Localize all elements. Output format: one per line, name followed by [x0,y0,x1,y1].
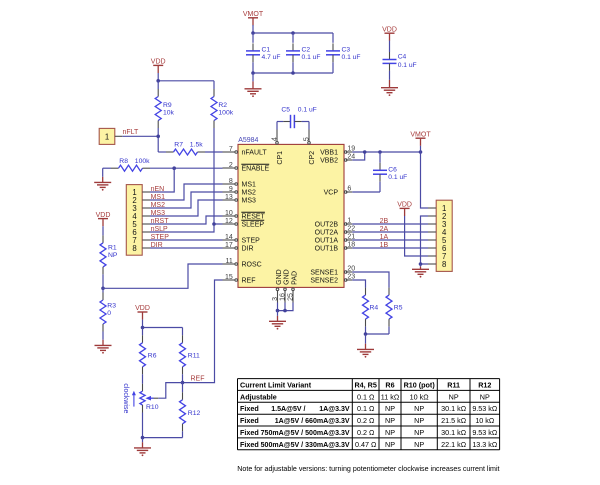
net label MS1 [151,194,166,201]
wire to ground (sense) [365,334,367,349]
svg-text:3: 3 [272,297,279,301]
wire VBB1 rail [352,151,420,153]
svg-text:C6: C6 [388,167,397,174]
net label REF [191,376,205,383]
svg-text:30.1 kΩ: 30.1 kΩ [441,428,467,437]
svg-text:21.5 kΩ: 21.5 kΩ [441,416,467,425]
node junction GND pin 3 [276,309,280,313]
resistor R7 1.5k [158,141,205,155]
svg-text:2A: 2A [380,226,389,233]
pin 19 (right, y=152) [344,146,355,154]
pin name ENABLE (overline) [241,164,269,172]
wire ROSC net [103,264,223,288]
svg-text:R5: R5 [394,305,403,312]
svg-text:R4: R4 [370,305,379,312]
svg-text:VDD: VDD [151,59,166,66]
svg-text:MS1: MS1 [242,182,257,189]
svg-text:15: 15 [225,274,233,281]
svg-text:4: 4 [269,137,278,141]
capacitor C3 0.1 uF [326,33,360,73]
svg-text:DIR: DIR [242,246,254,253]
svg-text:NP: NP [108,252,118,259]
ground (C4) [381,88,398,96]
svg-text:NP: NP [385,440,395,449]
svg-text:1.5k: 1.5k [190,141,203,148]
power symbol VDD (above R6) [135,305,150,319]
svg-text:REF: REF [191,376,205,383]
svg-text:8: 8 [229,178,233,185]
pin 12 (left, y=224) [223,218,238,226]
capacitor C6 0.1 uF [373,152,407,192]
svg-text:CP2: CP2 [309,151,316,165]
svg-text:500mA@5V / 330mA@3.3V: 500mA@5V / 330mA@3.3V [261,442,350,449]
wire MS1 net [150,184,223,200]
svg-text:Note for adjustable versions:: Note for adjustable versions: turning po… [237,465,499,473]
pin 8 (left, y=184) [223,178,238,186]
pin name MS1 [242,182,257,189]
svg-text:10: 10 [225,210,233,217]
svg-text:750mA@5V / 500mA@3.3V: 750mA@5V / 500mA@3.3V [261,430,350,437]
wire OUT net 1B [352,247,428,249]
net label 1A [380,234,389,241]
wire C4 to ground [389,80,391,88]
ground (R8) [94,182,111,190]
node junction VDD/R9 [156,79,160,83]
node junction VBB2/VBB1 [363,150,367,154]
svg-text:NP: NP [385,416,395,425]
node junction VMOT rail [419,150,423,154]
pin name DIR [242,246,254,253]
resistor R4 [363,288,379,334]
svg-text:10k: 10k [163,109,175,116]
pin name CP1 (rotated) [277,151,284,165]
wire nSLP net [150,224,223,232]
pin 11 (left, y=264) [223,258,238,266]
svg-text:C1: C1 [262,47,271,54]
svg-text:8: 8 [442,260,446,269]
resistor R12 [180,383,201,438]
connector J1 8-pin header [126,185,150,256]
pin 16 (bottom GND) [279,288,286,303]
wire VMOT to cap bank top rail [253,25,333,33]
connector J2 8-pin header (right) [428,200,452,271]
svg-text:Fixed: Fixed [240,416,259,425]
svg-text:7: 7 [229,146,233,153]
svg-text:0.1 uF: 0.1 uF [302,54,321,61]
net label MS3 [151,210,166,217]
resistor R2 100k [211,81,234,128]
node junction R1/R3/ROSC [101,287,105,291]
pin name ROSC [242,262,262,269]
wire SENSE2 net [352,280,365,288]
svg-text:13: 13 [225,194,233,201]
svg-text:22.1 kΩ: 22.1 kΩ [441,440,467,449]
svg-text:VCP: VCP [324,190,339,197]
pin 3 (bottom GND) [272,288,279,303]
svg-text:R11: R11 [447,381,460,390]
pin 2 (left, y=168) [223,162,238,170]
svg-text:REF: REF [242,278,256,285]
svg-text:CP1: CP1 [277,151,284,165]
svg-text:0.1 Ω: 0.1 Ω [357,392,375,401]
pin 25 (bottom PAD) [287,288,294,303]
svg-text:9.53 kΩ: 9.53 kΩ [472,428,498,437]
svg-text:R2: R2 [218,102,227,109]
wire VDD rail to R2 [158,73,214,81]
resistor R3 0 [100,288,116,340]
potentiometer R10 [140,384,159,413]
svg-text:1.5A@5V / 1A@3.3V: 1.5A@5V / 1A@3.3V [271,406,350,413]
wire OUT net 2A [352,231,428,233]
svg-text:8: 8 [132,244,136,253]
ground (IC) [269,321,286,329]
svg-text:VDD: VDD [135,305,150,312]
svg-text:clockwise: clockwise [122,383,129,413]
wire cap bank bottom rail [253,72,333,74]
node junction R10/R12 bottom [141,436,145,440]
power symbol VDD (right connector) [397,202,412,216]
svg-text:12: 12 [225,218,233,225]
IC U1 A5984 stepper motor driver [238,137,344,288]
net label nFLT [123,129,140,136]
ground (connector) [412,269,429,277]
capacitor C5 0.1 uF [277,106,317,129]
wire VMOT down to connector pin 1 [421,146,429,208]
svg-text:VDD: VDD [382,26,397,33]
wire R10 wiper to REF node [158,383,182,399]
pin 13 (left, y=200) [223,194,238,202]
wire STEP net [150,239,223,241]
pin name SENSE1 [310,270,338,277]
net label nEN [151,186,165,193]
svg-text:100k: 100k [135,158,150,165]
svg-text:30.1 kΩ: 30.1 kΩ [441,404,467,413]
svg-text:SLEEP: SLEEP [242,222,265,229]
pin 5 (top CP2) [301,130,310,145]
wire C6 to VCP pin [352,191,380,193]
svg-text:10 kΩ: 10 kΩ [475,416,495,425]
pin 9 (left, y=192) [223,186,238,194]
svg-text:NP: NP [480,392,490,401]
svg-text:1: 1 [105,133,109,142]
wire nRST net [150,216,223,224]
svg-text:6: 6 [347,186,351,193]
pin name MS3 [242,198,257,205]
pin 1 (right, y=224) [344,218,352,226]
svg-text:PAD: PAD [292,271,299,285]
wire to ground (IC) [277,311,279,322]
power symbol VDD (above R1) [96,212,111,226]
resistor R5 [386,288,403,334]
pin 23 (right, y=280) [344,274,355,282]
pin name CP2 (rotated) [309,151,316,165]
pin 7 (left, y=152) [223,146,238,154]
pin name OUT2B [315,222,339,229]
svg-text:NP: NP [414,404,424,413]
svg-text:0.47 Ω: 0.47 Ω [355,440,377,449]
node junction R4/R5 [364,332,368,336]
pin name SLEEP (overline) [241,220,264,228]
wire GND riser rows 2-8 [421,216,429,264]
pin 4 (top CP1) [269,130,278,145]
node junction REF [181,381,185,385]
svg-text:4.7 uF: 4.7 uF [262,54,281,61]
pin name GND (rotated, pin 3) [276,269,283,285]
svg-text:C5: C5 [281,106,290,113]
wire R2 down to SLEEP net [213,128,215,224]
svg-text:R12: R12 [478,381,491,390]
svg-text:MS3: MS3 [242,198,257,205]
svg-text:0.1 uF: 0.1 uF [388,174,407,181]
svg-text:nFLT: nFLT [123,129,140,136]
svg-text:0.2 Ω: 0.2 Ω [357,416,375,425]
svg-text:R6: R6 [385,381,394,390]
node junction C2 top [291,31,295,35]
svg-text:GND: GND [284,269,291,285]
svg-text:R6: R6 [148,352,157,359]
svg-text:RESET: RESET [242,214,266,221]
pin 20 (right, y=272) [344,266,355,274]
node junction connector GND [419,262,423,266]
pin 14 (left, y=240) [223,234,238,242]
wire SENSE1 net [352,272,389,288]
pin 6 (right, y=192) [344,186,352,194]
svg-text:R10: R10 [146,404,159,411]
pin 22 (right, y=232) [344,226,355,234]
svg-text:OUT1A: OUT1A [315,238,339,245]
node junction ENABLE/nEN [172,166,176,170]
net label DIR [151,242,163,249]
wire nFLT to R9/R7 [122,136,158,152]
pin name OUT2A [315,230,339,237]
pin name MS2 [242,190,257,197]
svg-text:VDD: VDD [397,202,412,209]
svg-text:5: 5 [301,137,310,141]
svg-text:NP: NP [414,428,424,437]
svg-text:2B: 2B [380,218,389,225]
pin 15 (left, y=280) [223,274,238,282]
pin name REF [242,278,256,285]
resistor R9 10k [155,81,174,137]
wire R7 to nFAULT pin [205,151,223,153]
svg-text:Fixed: Fixed [240,428,259,437]
power symbol VMOT (top) [243,11,264,25]
svg-text:0.1 Ω: 0.1 Ω [357,404,375,413]
svg-text:R11: R11 [188,352,200,359]
resistor R6 [140,328,157,384]
wire R10/R12 bottom rail [143,413,183,438]
node junction nFLT/R9 [156,135,160,139]
svg-text:NP: NP [385,404,395,413]
svg-text:1A: 1A [380,234,389,241]
ground (sense) [357,349,374,357]
svg-text:NP: NP [449,392,459,401]
node junction C2 bottom [291,71,295,75]
svg-text:2: 2 [229,162,233,169]
svg-text:nFAULT: nFAULT [242,150,268,157]
power symbol VDD (top right) [382,26,397,40]
net label 1B [380,242,389,249]
current limit table [238,379,500,450]
node junction VDD/R6 [141,326,145,330]
svg-text:Adjustable: Adjustable [240,392,277,401]
wire OUT net 2B [352,223,428,225]
svg-text:R3: R3 [107,303,116,310]
pin 17 (left, y=248) [223,242,238,250]
svg-text:SENSE2: SENSE2 [310,278,338,285]
pin 24 (right, y=160) [344,154,355,162]
node junction C6 tap [378,150,382,154]
node junction GND pin 16 [283,309,287,313]
svg-text:GND: GND [276,269,283,285]
pin name GND (rotated, pin 16) [284,269,291,285]
power symbol VMOT (right) [410,131,431,145]
net label 2A [380,226,389,233]
svg-text:0.2 Ω: 0.2 Ω [357,428,375,437]
svg-text:ROSC: ROSC [242,262,262,269]
svg-text:R9: R9 [163,102,172,109]
svg-text:MS2: MS2 [242,190,257,197]
svg-text:VBB1: VBB1 [320,150,338,157]
resistor R11 [180,328,200,383]
wire to ground from cap bank [252,73,254,89]
wire REF net (pin 15 riser) [183,280,223,383]
svg-text:100k: 100k [218,109,233,116]
svg-text:0.1 uF: 0.1 uF [398,62,417,69]
wire to ground (connector) [420,264,422,269]
label clockwise with arrow [122,383,136,413]
svg-text:R10 (pot): R10 (pot) [404,381,436,390]
svg-text:11: 11 [226,258,233,265]
svg-text:0.1 uF: 0.1 uF [342,54,361,61]
svg-text:OUT2B: OUT2B [315,222,339,229]
svg-text:1A@5V / 660mA@3.3V: 1A@5V / 660mA@3.3V [275,418,350,425]
resistor R1 NP [100,226,118,288]
pin name VBB1 [320,150,338,157]
wire MS3 net [150,200,223,216]
net label nSLP [151,226,168,233]
svg-text:SENSE1: SENSE1 [310,270,338,277]
svg-text:A5984: A5984 [238,137,258,144]
pin name SENSE2 [310,278,338,285]
svg-text:STEP: STEP [242,238,261,245]
svg-text:R4, R5: R4, R5 [354,381,376,390]
wire R3 to ground [102,340,104,345]
node junction nSLP/R2 [212,222,216,226]
wire to ground (divider) [142,438,144,448]
pin name VBB2 [320,158,338,165]
wire DIR net [150,247,223,249]
note text [237,465,499,473]
capacitor C2 0.1 uF [286,33,320,73]
wire VDD to connector pin 7 [405,216,428,256]
wire VDD to R6/R11 [143,320,183,328]
pin name PAD (rotated, pin 25) [292,271,299,285]
pin name STEP [242,238,261,245]
connector pad nFLT (1-pin) [99,128,122,144]
svg-text:9.53 kΩ: 9.53 kΩ [472,404,498,413]
wire OUT net 1A [352,239,428,241]
svg-text:VMOT: VMOT [410,131,431,138]
svg-text:VDD: VDD [96,212,111,219]
pin 21 (right, y=240) [344,234,355,242]
pin name nFAULT [242,150,268,157]
pin 18 (right, y=248) [344,242,355,250]
wire R4/R5 bottom rail [366,333,390,335]
svg-text:9: 9 [229,186,233,193]
svg-text:0.1 uF: 0.1 uF [298,106,317,113]
svg-text:C2: C2 [302,47,311,54]
svg-text:1B: 1B [380,242,389,249]
net label STEP [151,234,170,241]
svg-text:Fixed: Fixed [240,404,259,413]
svg-text:OUT1B: OUT1B [315,246,339,253]
svg-text:16: 16 [279,293,286,301]
svg-text:11 kΩ: 11 kΩ [381,392,400,401]
svg-text:ENABLE: ENABLE [242,166,270,173]
power symbol VDD (above R9) [151,59,166,73]
ground (cap bank) [245,89,262,97]
svg-text:0: 0 [107,310,111,317]
svg-text:10 kΩ: 10 kΩ [410,392,430,401]
net label nRST [151,218,170,225]
svg-text:R12: R12 [188,410,201,417]
net label MS2 [151,202,166,209]
node junction C1 bottom [251,71,255,75]
ground (R3) [95,345,112,353]
pin name OUT1B [315,246,339,253]
wire nEN net [150,168,174,192]
svg-text:C4: C4 [398,53,407,60]
svg-text:C3: C3 [342,47,351,54]
svg-text:VBB2: VBB2 [320,158,338,165]
svg-text:Current Limit Variant: Current Limit Variant [240,381,312,390]
svg-text:R7: R7 [174,141,183,148]
wire R8 to ENABLE pin [150,167,223,169]
capacitor C1 4.7 uF [246,33,280,73]
pin name RESET (overline) [241,212,265,220]
svg-text:R1: R1 [108,245,117,252]
svg-text:13.3 kΩ: 13.3 kΩ [472,440,498,449]
svg-text:VMOT: VMOT [243,11,264,18]
svg-text:17: 17 [225,242,233,249]
ground (divider) [134,448,151,456]
net label 2B [380,218,389,225]
pin name VCP [324,190,339,197]
pin name OUT1A [315,238,339,245]
svg-text:NP: NP [414,416,424,425]
wire MS2 net [150,192,223,208]
pin 10 (left, y=216) [223,210,238,218]
svg-text:14: 14 [225,234,233,241]
node junction VMOT/C1 top [251,31,255,35]
svg-text:R8: R8 [119,158,128,165]
svg-text:NP: NP [414,440,424,449]
svg-text:25: 25 [287,293,294,301]
svg-text:1: 1 [347,218,351,225]
wire VBB2 jog [352,152,364,160]
capacitor C4 0.1 uF [383,41,417,80]
svg-text:Fixed: Fixed [240,440,259,449]
wire GND pins rail [278,303,294,311]
svg-text:NP: NP [385,428,395,437]
resistor R8 100k [103,158,150,182]
svg-text:OUT2A: OUT2A [315,230,339,237]
